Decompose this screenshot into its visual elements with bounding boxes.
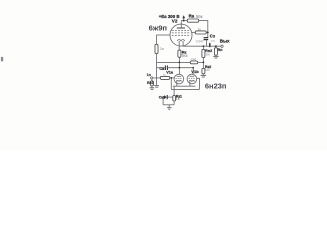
svg-text:V1b: V1b [191, 69, 199, 74]
svg-text:2м1: 2м1 [191, 57, 197, 61]
svg-text:Rс1: Rс1 [147, 81, 154, 85]
svg-text:0,047: 0,047 [196, 40, 204, 44]
svg-text:Cз: Cз [210, 33, 215, 38]
svg-text:V1а: V1а [166, 70, 174, 74]
svg-text:0,5: 0,5 [211, 39, 216, 43]
svg-text:1К: 1К [176, 97, 180, 101]
svg-text:1к0: 1к0 [205, 68, 210, 72]
svg-text:Cк1: Cк1 [159, 95, 165, 99]
svg-text:Вых: Вых [220, 38, 230, 43]
svg-text:Rн: Rн [218, 48, 223, 52]
svg-text:7К5: 7К5 [181, 54, 187, 58]
svg-text:Rа: Rа [189, 14, 195, 19]
svg-text:1к: 1к [198, 27, 202, 31]
svg-text:2м: 2м [160, 47, 164, 51]
svg-text:V2: V2 [172, 18, 178, 23]
svg-text:6ж9п: 6ж9п [149, 24, 168, 33]
svg-text:56к: 56к [196, 14, 203, 19]
svg-text:1в: 1в [147, 73, 152, 77]
svg-text:6н23п: 6н23п [205, 81, 227, 90]
svg-text:1м: 1м [206, 52, 210, 56]
